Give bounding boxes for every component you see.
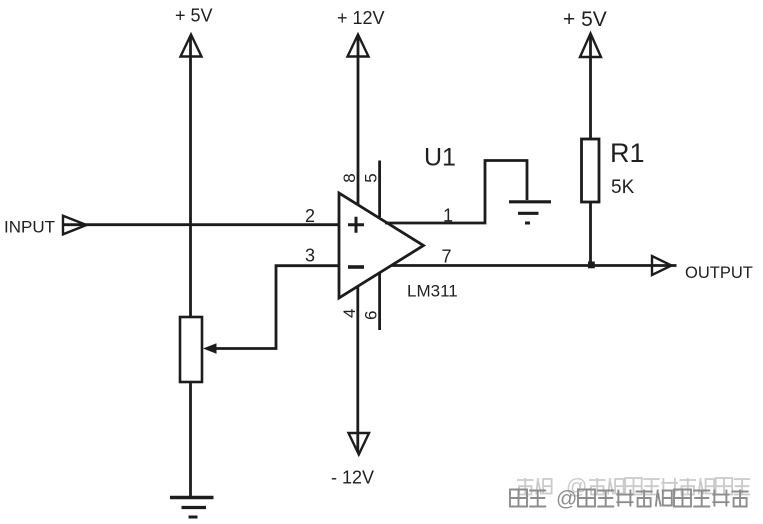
svg-text:OUTPUT: OUTPUT: [685, 264, 753, 282]
svg-text:1: 1: [443, 206, 453, 226]
svg-text:@: @: [556, 488, 577, 511]
svg-text:LM311: LM311: [407, 282, 458, 301]
svg-text:R1: R1: [610, 138, 645, 168]
svg-text:3: 3: [305, 246, 315, 266]
svg-text:4: 4: [340, 309, 359, 318]
svg-text:5K: 5K: [611, 177, 635, 198]
svg-text:U1: U1: [424, 144, 456, 172]
svg-text:+ 5V: + 5V: [175, 6, 213, 26]
svg-text:7: 7: [442, 247, 452, 267]
svg-text:2: 2: [305, 206, 315, 226]
svg-text:5: 5: [362, 173, 381, 182]
svg-text:6: 6: [362, 311, 381, 320]
svg-text:8: 8: [340, 173, 359, 182]
svg-text:+ 5V: + 5V: [563, 8, 607, 31]
svg-text:+ 12V: + 12V: [337, 8, 385, 28]
svg-text:INPUT: INPUT: [4, 218, 55, 237]
svg-text:- 12V: - 12V: [331, 468, 374, 488]
